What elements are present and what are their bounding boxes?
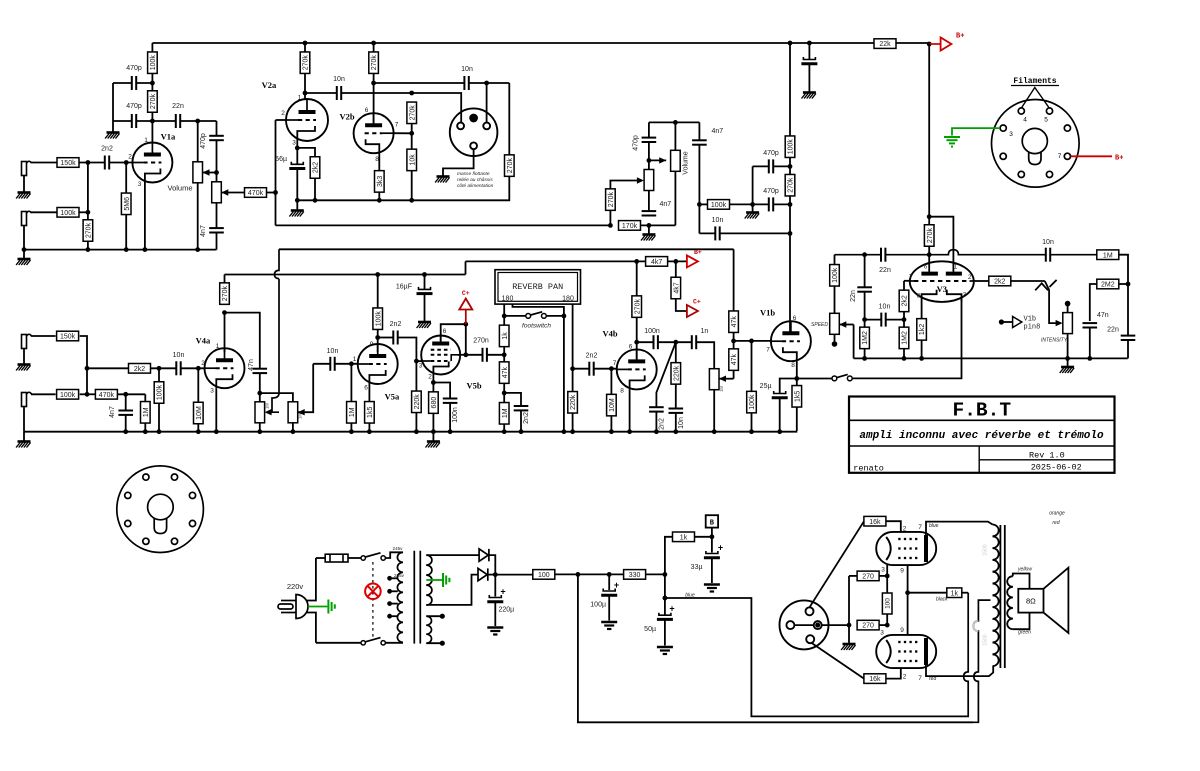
resistor 1k5 V1b <box>792 386 802 408</box>
svg-text:16k: 16k <box>869 519 881 526</box>
wire rail gnd stub left <box>23 432 25 441</box>
fuse mains <box>325 554 348 562</box>
wire intensity gnd stub <box>1067 358 1069 366</box>
speaker 8ohm <box>1018 568 1068 633</box>
earth green plug <box>328 600 334 614</box>
junction V2a grid line <box>273 190 278 195</box>
junction B box node <box>710 534 715 539</box>
capacitor 22n osc1 <box>881 248 885 262</box>
svg-text:1k: 1k <box>502 332 509 340</box>
wire speed wiper drop <box>853 325 855 359</box>
wire pin7 link <box>460 354 466 356</box>
svg-text:9: 9 <box>370 341 374 348</box>
svg-text:C+: C+ <box>462 290 470 297</box>
wire jack3 sleeve <box>23 349 25 365</box>
wire trem rail <box>854 357 1128 359</box>
wire 16uF drop <box>424 275 426 290</box>
wire osc line with hop <box>835 250 1097 255</box>
ground jack1 <box>16 193 30 199</box>
svg-text:1M: 1M <box>719 386 724 392</box>
svg-text:7: 7 <box>395 122 399 129</box>
junction 5M6 tap <box>124 160 129 165</box>
svg-text:100: 100 <box>538 572 550 579</box>
svg-text:180: 180 <box>502 296 514 303</box>
svg-text:100k: 100k <box>157 384 164 400</box>
svg-text:470p: 470p <box>763 150 779 157</box>
wire 100k to speed pot <box>834 286 836 313</box>
svg-text:270k: 270k <box>507 158 514 174</box>
svg-text:2025-06-02: 2025-06-02 <box>1031 462 1082 472</box>
resistor 1k feedback <box>947 588 962 598</box>
wire grid b <box>886 668 901 679</box>
junction pots node <box>257 391 262 396</box>
wire 100k V1b rail <box>751 413 753 431</box>
wire jack4 to 100k <box>31 393 56 395</box>
wire 2k2 osc chain <box>903 281 905 327</box>
resistor 150k input 1 <box>57 158 79 168</box>
svg-text:100k: 100k <box>749 394 756 410</box>
junction top rail V2b <box>371 41 376 46</box>
svg-text:1M: 1M <box>349 407 356 417</box>
transformer output secondary <box>1007 576 1013 629</box>
wire V5b plate top <box>441 324 466 343</box>
junction rail x433.4 <box>431 429 436 434</box>
potentiometer reverb return <box>709 369 719 390</box>
capacitor 16uF decouple <box>417 287 433 294</box>
svg-text:V4a: V4a <box>196 336 211 346</box>
junction 470p node <box>750 202 755 207</box>
wire 100R to 330R <box>555 573 624 575</box>
wire V4a plate jog <box>225 313 260 369</box>
junction pin7 node <box>463 352 468 357</box>
wire 10n to 2k2 node <box>886 319 904 321</box>
svg-text:3: 3 <box>419 363 423 370</box>
svg-text:470k: 470k <box>99 392 115 399</box>
wire 270k to V2b plate <box>373 43 375 52</box>
svg-text:100k: 100k <box>788 139 795 155</box>
wire primary tap 3 <box>390 603 398 605</box>
wire 5M6 top <box>125 163 127 194</box>
triode V1b <box>771 321 811 361</box>
junction 4n7 mid <box>647 223 652 228</box>
wire cathode to switch <box>797 378 832 380</box>
jack input 4 <box>22 392 32 406</box>
junction osc node2 <box>862 317 867 322</box>
svg-text:V4b: V4b <box>602 329 617 339</box>
wire V4a plate up <box>224 313 226 353</box>
junction divider top <box>409 91 414 96</box>
wire V2a cathode <box>296 141 298 164</box>
wire V5a plate <box>377 330 379 353</box>
wire pot5 wiper riser <box>298 364 314 412</box>
wire 47k join <box>733 333 735 349</box>
wire pots jog <box>260 393 293 402</box>
svg-text:3k3: 3k3 <box>377 176 384 187</box>
svg-text:270k: 270k <box>222 286 229 302</box>
wire 220u gnd <box>494 602 496 626</box>
svg-text:1M: 1M <box>1103 252 1113 259</box>
wire 22n2 drop <box>864 255 866 287</box>
wire 4n7 ch2 rail <box>125 415 127 432</box>
wire B+ main run <box>578 574 973 722</box>
svg-text:V1a: V1a <box>161 132 176 142</box>
svg-text:3: 3 <box>292 140 296 147</box>
wire V2b cathode <box>378 153 380 171</box>
wire V1a cathode to rail <box>144 183 146 250</box>
svg-text:270k: 270k <box>634 299 641 315</box>
junction rail x563.9 <box>562 429 567 434</box>
triode V2b <box>354 113 394 153</box>
junction bus 2k2 <box>313 198 318 203</box>
capacitor 270n reverb <box>483 348 487 362</box>
svg-text:1M2: 1M2 <box>902 331 909 345</box>
junction chain 470pa <box>788 164 793 169</box>
power arrow C+ mid <box>687 305 698 317</box>
connector mains plug <box>278 595 308 619</box>
junction 47n rail <box>1087 356 1092 361</box>
resistor 2k2 V2a cathode <box>310 157 320 179</box>
symbol trem coupling <box>1035 280 1056 323</box>
wire float bus right edge <box>508 83 510 155</box>
wire primary tap 4 <box>390 615 398 617</box>
triode V2a <box>286 99 328 141</box>
resistor 170k fb <box>619 221 641 231</box>
wire 10n fb line <box>699 232 715 234</box>
wire intensity top <box>1067 305 1069 313</box>
capacitor 2n2 V4b <box>589 362 593 376</box>
wire V3 right plate feed <box>929 217 953 272</box>
capacitor 470p V1b b <box>769 197 773 211</box>
wire heater bottom <box>426 642 442 644</box>
wire 470pb l <box>753 203 769 205</box>
wire 100k leak to rail <box>158 403 160 431</box>
wire line A <box>279 248 734 250</box>
wire 10M to rail <box>197 424 199 432</box>
junction C+ node <box>463 322 468 327</box>
wire 1M ch2 rail <box>144 423 146 432</box>
wire V1a ground rail <box>24 249 217 251</box>
junction screen a <box>885 574 890 579</box>
resistor 1M2 osc b <box>899 327 909 349</box>
svg-text:10n: 10n <box>333 76 345 83</box>
ground intensity <box>1060 367 1074 373</box>
resistor 16k grid a <box>864 516 886 526</box>
wire 10n to V4a grid <box>181 367 205 369</box>
svg-text:100µ: 100µ <box>590 602 606 609</box>
wire B box stub <box>711 528 713 537</box>
junction osc node3 <box>902 317 907 322</box>
wire V1b grid line <box>734 340 771 342</box>
svg-text:8Ω: 8Ω <box>1026 597 1036 606</box>
wire 470pa r <box>773 165 790 167</box>
wire to fuse <box>316 557 325 559</box>
resistor 270k float <box>505 155 515 177</box>
resistor 100k V5a plate <box>373 308 383 330</box>
wire 1M V5a drop <box>350 364 352 402</box>
wire switch to primary <box>385 552 403 558</box>
junction footswitch gnd <box>562 314 567 319</box>
svg-text:ampli inconnu avec réverbe et: ampli inconnu avec réverbe et trémolo <box>859 430 1104 442</box>
wire chain mid1 <box>789 158 791 175</box>
connector B box <box>706 515 718 527</box>
capacitor 25u V1b <box>772 391 788 398</box>
wire line B <box>466 260 646 262</box>
junction wiper node mid <box>647 158 652 163</box>
wire 470p3 drop <box>216 121 218 136</box>
svg-text:3: 3 <box>1009 131 1013 138</box>
wire 2n2 to V1a grid <box>109 162 132 164</box>
junction screen b <box>885 623 890 628</box>
svg-text:180: 180 <box>562 296 574 303</box>
pentode V5b <box>421 336 460 375</box>
wire 4n7 to rail <box>216 233 218 250</box>
svg-text:1M2: 1M2 <box>862 331 869 345</box>
resistor 100 screen link <box>882 593 892 614</box>
svg-text:1: 1 <box>298 95 302 102</box>
resistor 270k V1b chain <box>785 174 795 196</box>
svg-text:Volume: Volume <box>167 184 192 193</box>
wire 270k to gnd rail <box>87 241 89 249</box>
wire plate to 22n <box>152 120 175 122</box>
wire 1k fb out <box>962 592 968 594</box>
transformer HV secondary <box>426 555 432 605</box>
wire 2n2 to V4b grid <box>594 368 617 370</box>
wire 2k2 to 10n <box>151 367 176 369</box>
junction rail x751.5 <box>749 429 754 434</box>
svg-text:220k: 220k <box>673 365 680 381</box>
junction rail x450.1 <box>448 429 453 434</box>
svg-text:470p: 470p <box>633 135 640 151</box>
resistor 47k reverb <box>499 362 509 384</box>
wire 470k to tone wiper <box>221 192 244 194</box>
potentiometer tone V1a <box>212 182 222 203</box>
svg-text:black: black <box>936 597 948 603</box>
svg-text:2: 2 <box>128 154 132 161</box>
ground 100u <box>601 622 617 629</box>
wire B+ top rail <box>152 42 929 44</box>
triode V4b <box>617 349 657 389</box>
wire node up to 1k <box>665 537 673 575</box>
resistor 2k2 ch2 <box>129 364 151 374</box>
svg-text:3: 3 <box>138 181 142 188</box>
wire socket left to center <box>794 624 813 626</box>
junction V4b grid <box>609 366 614 371</box>
wire 25u jog <box>780 379 797 394</box>
svg-text:2k2: 2k2 <box>134 366 145 373</box>
svg-text:470p: 470p <box>126 103 142 110</box>
wire 270k V4b to lineB <box>636 261 638 296</box>
junction out gnd bus <box>847 623 852 628</box>
capacitor filter top <box>801 57 817 64</box>
wiper arrow volume2 <box>659 157 666 163</box>
resistor 100k V1a plate <box>148 52 158 73</box>
junction V3 plate node <box>927 252 932 257</box>
wire screen b to 100 <box>886 614 888 625</box>
junction rail x611.4 <box>609 429 614 434</box>
capacitor 10n osc out <box>1046 248 1050 262</box>
wire HV CT <box>426 579 442 581</box>
junction V5a grid <box>349 361 354 366</box>
wire cathodes to 1k fb <box>908 592 947 594</box>
potentiometer INTENSITY <box>1063 313 1073 334</box>
junction 2M2 1M <box>1126 282 1131 287</box>
svg-text:2k2: 2k2 <box>994 279 1005 286</box>
wire 470p ground leg <box>112 83 114 132</box>
wire jack3 to 150k <box>31 335 56 337</box>
wire 100n jog <box>433 383 450 399</box>
wire 270k V4a to supply <box>224 275 226 283</box>
potentiometer reverb send <box>255 402 265 423</box>
wire secondary green <box>1013 613 1030 630</box>
svg-text:680: 680 <box>431 397 438 409</box>
terminal primary tap 4 <box>387 614 392 619</box>
junction blue node <box>663 596 668 601</box>
terminal primary tap 1 <box>387 576 392 581</box>
wire 100k V1b drop <box>751 341 753 391</box>
junction 330 out <box>663 572 668 577</box>
resistor 270k V1a plate <box>148 91 158 113</box>
svg-text:220k: 220k <box>414 394 421 410</box>
svg-text:10n: 10n <box>461 66 473 73</box>
wire 2n2 to V5b grid <box>398 338 417 392</box>
ground jack3 <box>16 365 30 371</box>
wire 5M6 to gnd rail <box>125 215 127 250</box>
junction rectifier out <box>493 572 498 577</box>
terminal heater bottom <box>440 641 445 646</box>
resistor 100k V1b chain <box>785 136 795 158</box>
svg-text:6: 6 <box>629 344 633 351</box>
ground rail left <box>16 442 30 448</box>
svg-text:4n7: 4n7 <box>660 201 672 208</box>
transformer mains core <box>414 551 420 644</box>
junction 270n node <box>502 352 507 357</box>
wire HV top to D1 <box>426 554 479 556</box>
svg-text:220v: 220v <box>287 582 304 591</box>
capacitor 50u <box>657 613 673 620</box>
resistor 270k V4a plate <box>220 283 230 305</box>
wire 470p4 to wiper node <box>648 142 650 169</box>
svg-text:SPEED: SPEED <box>811 322 828 328</box>
wire 100k osc drop <box>834 255 836 265</box>
capacitor 22n osc2 <box>857 287 872 291</box>
wire V2a grid vertical <box>275 120 277 225</box>
junction V4b plate node <box>634 340 639 345</box>
wire 100k-270k join <box>151 74 153 92</box>
wire jack2 to 100k <box>31 211 57 213</box>
underline Filaments <box>1011 85 1059 87</box>
capacitor 4n7 mid <box>642 211 657 215</box>
switch mains lower <box>361 638 385 645</box>
ground 50u <box>657 647 673 654</box>
lamp mains indicator <box>365 584 381 600</box>
ground V1a rail <box>16 259 30 265</box>
junction mid top <box>673 120 678 125</box>
wiper arrow pot6 <box>719 376 726 382</box>
svg-text:270: 270 <box>862 574 874 581</box>
capacitor 100n V5b <box>443 399 458 403</box>
wire V3 grid right out <box>974 280 989 282</box>
title block frame <box>849 397 1115 473</box>
svg-text:47k: 47k <box>502 366 509 378</box>
resistor 270k fb <box>606 189 616 211</box>
wire 2n2 jog <box>504 393 521 406</box>
wire 1k2 rail <box>921 340 923 358</box>
capacitor 10n osc mid <box>881 313 885 327</box>
wire 470p node gnd <box>752 166 754 212</box>
junction rail x125.7 <box>123 429 128 434</box>
junction lineB V4b <box>634 259 639 264</box>
junction rail x714.2 <box>712 429 717 434</box>
connector DIN output <box>450 108 498 156</box>
wire speed wiper <box>839 324 853 326</box>
wire rail ground stub <box>23 250 25 259</box>
wire D1 out <box>489 555 495 575</box>
hop grey CT <box>973 621 978 631</box>
resistor 270k V2a plate <box>300 52 310 73</box>
svg-text:masse flottante: masse flottante <box>457 171 490 177</box>
capacitor 4n7 ch2 <box>118 411 133 415</box>
ground filter cap <box>802 93 816 99</box>
wire 22n trem rail <box>1127 340 1129 358</box>
wire 1M V5a rail <box>350 423 352 432</box>
wire switch2 to plug <box>316 642 361 644</box>
capacitor 2n2 input <box>105 156 109 170</box>
wire 10n fb to chain <box>720 232 790 234</box>
wire 4n7 to gnd <box>648 225 650 234</box>
capacitor 10n V5a <box>330 357 334 371</box>
resistor 270k V3 plate <box>924 225 934 247</box>
resistor 5M6 grid leak <box>121 193 131 215</box>
svg-text:22n: 22n <box>850 290 857 302</box>
wire 47n to pots <box>259 373 261 422</box>
wire divider mid <box>411 124 413 150</box>
wire rect to 100R <box>495 574 532 576</box>
transformer heater secondary <box>426 616 431 643</box>
resistor 100k osc <box>830 265 840 287</box>
wire HV bottom to D2 <box>426 575 478 605</box>
junction rail x521 <box>519 429 524 434</box>
wire 2n2 diagonal <box>656 342 675 407</box>
svg-text:270k: 270k <box>371 55 378 71</box>
junction intensity rail <box>1065 356 1070 361</box>
capacitor 22n trem <box>1121 336 1136 340</box>
wire pan shield jog <box>513 304 564 316</box>
svg-text:INTENSITY: INTENSITY <box>1041 338 1068 344</box>
svg-text:blue: blue <box>929 523 939 529</box>
wire green pin3 <box>952 128 1000 135</box>
junction chain 10n <box>788 231 793 236</box>
resistor 100k ch2 b <box>57 390 79 400</box>
wire 100u gnd <box>608 595 610 620</box>
junction rail volume pot <box>195 247 200 252</box>
wire node to 2k2 <box>87 367 128 369</box>
wire 220k to 10n <box>675 384 677 408</box>
earth green HV CT <box>443 573 449 587</box>
wire vol2 top <box>674 122 676 150</box>
filament pick lines <box>1022 88 1049 108</box>
svg-text:1: 1 <box>144 137 148 144</box>
junction 100u node <box>607 572 612 577</box>
wire 270k fb to wiper <box>610 181 637 189</box>
wire 1k5 rail <box>368 423 370 432</box>
junction V2a plate <box>303 91 308 96</box>
svg-text:2: 2 <box>903 526 907 533</box>
jack input 2 <box>22 211 32 225</box>
wiper arrow pot5 <box>298 409 305 415</box>
wire V3 grid left <box>904 280 910 282</box>
potentiometer SPEED <box>830 313 840 334</box>
svg-text:2: 2 <box>428 374 432 381</box>
